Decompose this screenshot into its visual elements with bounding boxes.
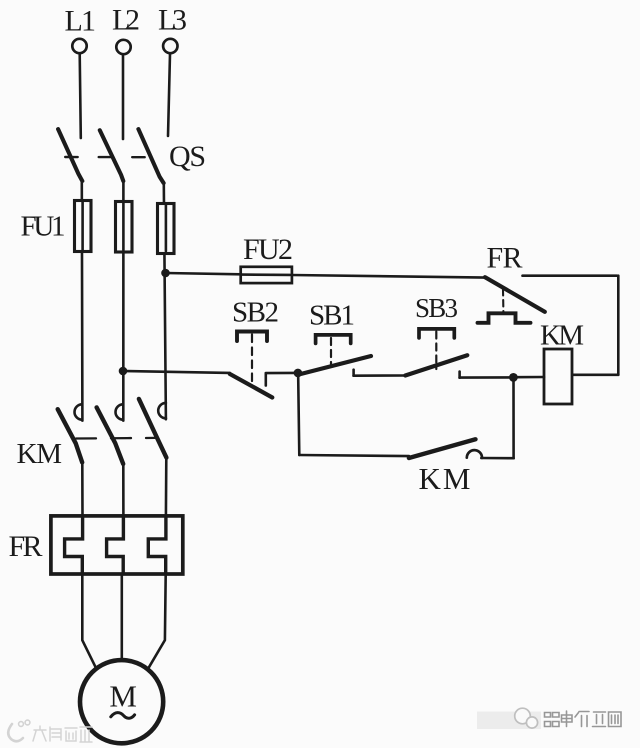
wire control top rail right of FU2 <box>292 275 486 278</box>
contactor KM main pole3 blade <box>139 399 167 458</box>
node junction L3 to control circuit <box>161 269 170 278</box>
svg-text:FR: FR <box>9 530 43 563</box>
pushbutton SB3 right terminal tick <box>458 372 461 378</box>
wire KM pole3 to FR box <box>165 458 168 517</box>
pushbutton SB3 NO blade <box>405 355 467 375</box>
svg-text:L2: L2 <box>112 4 140 37</box>
svg-text:FU1: FU1 <box>21 211 66 243</box>
node junction at KM coil left <box>509 373 518 382</box>
svg-text:KM: KM <box>17 438 63 470</box>
svg-text:KM: KM <box>419 461 471 496</box>
pushbutton SB2 right terminal tick <box>264 373 267 385</box>
wire QS pole2 to fuse FU1b <box>122 181 125 421</box>
wire SB3 to node <box>460 376 510 379</box>
switch QS mechanical link dashed line <box>65 156 147 159</box>
fuse FU1 pole2 body <box>116 202 133 253</box>
motor M body circle <box>80 660 163 743</box>
wire control top rail right of FR <box>523 274 618 277</box>
wire right edge vertical <box>617 276 620 375</box>
switch QS pole 2 blade <box>100 130 124 181</box>
contactor KM auxiliary NO blade <box>409 439 476 458</box>
wire aux branch right vertical <box>512 377 515 458</box>
svg-text:QS: QS <box>169 140 206 173</box>
pushbutton SB1 NO blade <box>301 356 371 374</box>
thermal relay FR actuator symbol <box>478 313 531 323</box>
fuse FU1 pole2 wire inside <box>122 203 125 250</box>
svg-text:SB3: SB3 <box>415 293 458 323</box>
svg-text:M: M <box>109 679 137 714</box>
terminal L3 circle <box>163 39 177 53</box>
thermal relay FR heater element 2 <box>107 517 124 574</box>
fuse FU2 wire inside <box>242 273 290 276</box>
watermark bottom-left text <box>33 726 92 742</box>
wire aux branch left vertical <box>298 377 299 455</box>
wire KM pole2 to FR box <box>122 464 125 517</box>
fuse FU1 pole1 wire inside <box>81 202 84 250</box>
contactor KM main pole2 fixed contact arc <box>115 404 123 419</box>
pushbutton SB1 dashed link <box>330 338 332 365</box>
watermark bottom-right wechat logo <box>515 708 538 728</box>
fuse FU1 pole3 body <box>158 204 175 254</box>
svg-text:SB2: SB2 <box>232 297 279 329</box>
thermal relay FR heater element 1 <box>65 517 83 574</box>
wire QS pole3 to fuse FU1c (with taps) <box>164 183 166 419</box>
watermark bottom-left logo <box>8 720 30 741</box>
wire FR box to motor right <box>149 574 166 667</box>
wire control top rail left of FU2 <box>166 273 241 274</box>
svg-text:L1: L1 <box>65 5 97 38</box>
node junction SB2/SB1/aux branch <box>294 369 303 378</box>
pushbutton SB1 actuator bracket <box>316 335 351 344</box>
watermark bottom-right band <box>477 712 541 730</box>
fuse FU1 pole3 wire inside <box>165 205 168 251</box>
node junction L2 to control circuit <box>119 367 128 376</box>
wire FR box to motor middle <box>121 574 124 659</box>
wire FR box to motor left <box>82 574 95 667</box>
contactor KM coil body <box>544 349 572 404</box>
contactor KM auxiliary contact arc <box>467 450 482 458</box>
wire L1 terminal to QS <box>80 54 81 139</box>
motor M tilde <box>111 713 135 719</box>
fuse FU2 body <box>241 267 292 283</box>
contactor KM main pole2 blade <box>97 407 124 464</box>
thermal relay FR heater box <box>51 516 183 574</box>
svg-text:FU2: FU2 <box>243 233 293 266</box>
svg-text:L3: L3 <box>158 4 187 37</box>
thermal relay FR contact blade <box>485 277 545 312</box>
thermal relay FR dashed link <box>502 289 504 312</box>
wire aux branch right bottom <box>481 457 513 460</box>
wire KM pole1 to FR box <box>81 462 84 517</box>
contactor KM main mechanical link dashed line <box>76 437 155 440</box>
switch QS pole 1 blade <box>58 129 82 181</box>
contactor KM main pole3 fixed contact arc <box>158 403 166 418</box>
terminal L1 circle <box>72 39 86 53</box>
thermal relay FR heater element 3 <box>148 517 166 574</box>
wire L2 terminal to QS <box>122 56 125 140</box>
watermark bottom-right text 弱电行业网 <box>545 711 622 727</box>
svg-text:FR: FR <box>487 242 523 275</box>
wire SB1 to SB3 <box>354 374 406 377</box>
wire right edge to KM coil <box>572 373 618 376</box>
pushbutton SB3 actuator bracket <box>419 329 454 338</box>
contactor KM main pole1 blade <box>58 409 82 462</box>
wire L3 terminal to QS <box>168 54 170 136</box>
wire control bottom rail to SB2 <box>123 371 230 373</box>
pushbutton SB2 actuator bracket <box>237 332 267 342</box>
wire SB2 to node <box>266 372 294 375</box>
pushbutton SB3 dashed link <box>435 332 437 370</box>
switch QS pole 3 blade <box>138 129 163 183</box>
wire aux branch bottom <box>299 455 409 456</box>
pushbutton SB2 dashed link <box>251 335 253 385</box>
wire node to KM coil <box>513 376 544 379</box>
contactor KM main pole1 fixed contact arc <box>74 404 82 419</box>
wire QS pole1 to fuse FU1a <box>81 180 84 421</box>
pushbutton SB1 right terminal tick <box>352 370 355 376</box>
pushbutton SB2 NC blade <box>230 374 272 398</box>
svg-text:SB1: SB1 <box>309 300 355 332</box>
terminal L2 circle <box>116 40 130 54</box>
svg-text:KM: KM <box>540 320 584 352</box>
fuse FU1 pole1 body <box>75 201 92 252</box>
